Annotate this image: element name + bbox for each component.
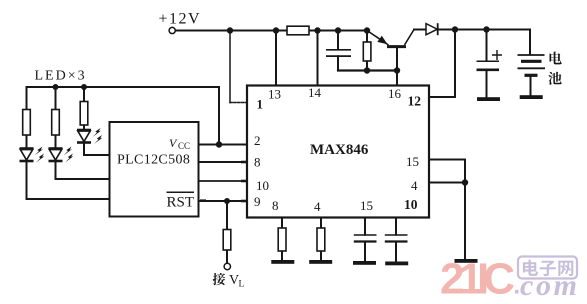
svg-text:2: 2 (254, 133, 261, 148)
svg-text:4: 4 (411, 178, 418, 193)
svg-text:RST: RST (167, 194, 195, 210)
svg-text:1: 1 (257, 97, 264, 112)
svg-text:10: 10 (256, 178, 269, 193)
svg-text:CC: CC (178, 141, 190, 151)
svg-text:14: 14 (308, 85, 322, 100)
svg-text:21IC: 21IC (440, 255, 515, 304)
svg-text:+12V: +12V (159, 11, 202, 28)
svg-text:LED×3: LED×3 (35, 69, 87, 84)
svg-text:16: 16 (388, 86, 402, 101)
svg-text:L: L (239, 280, 245, 290)
svg-text:12: 12 (408, 94, 422, 109)
svg-text:15: 15 (406, 154, 419, 169)
svg-text:MAX846: MAX846 (310, 142, 369, 158)
svg-text:8: 8 (254, 155, 261, 170)
svg-text:15: 15 (360, 198, 373, 213)
svg-text:8: 8 (272, 198, 279, 213)
svg-text:10: 10 (404, 197, 418, 212)
svg-text:PLC12C508: PLC12C508 (117, 152, 190, 167)
svg-text:9: 9 (254, 194, 261, 209)
svg-text:4: 4 (314, 199, 321, 214)
svg-text:13: 13 (268, 87, 281, 102)
